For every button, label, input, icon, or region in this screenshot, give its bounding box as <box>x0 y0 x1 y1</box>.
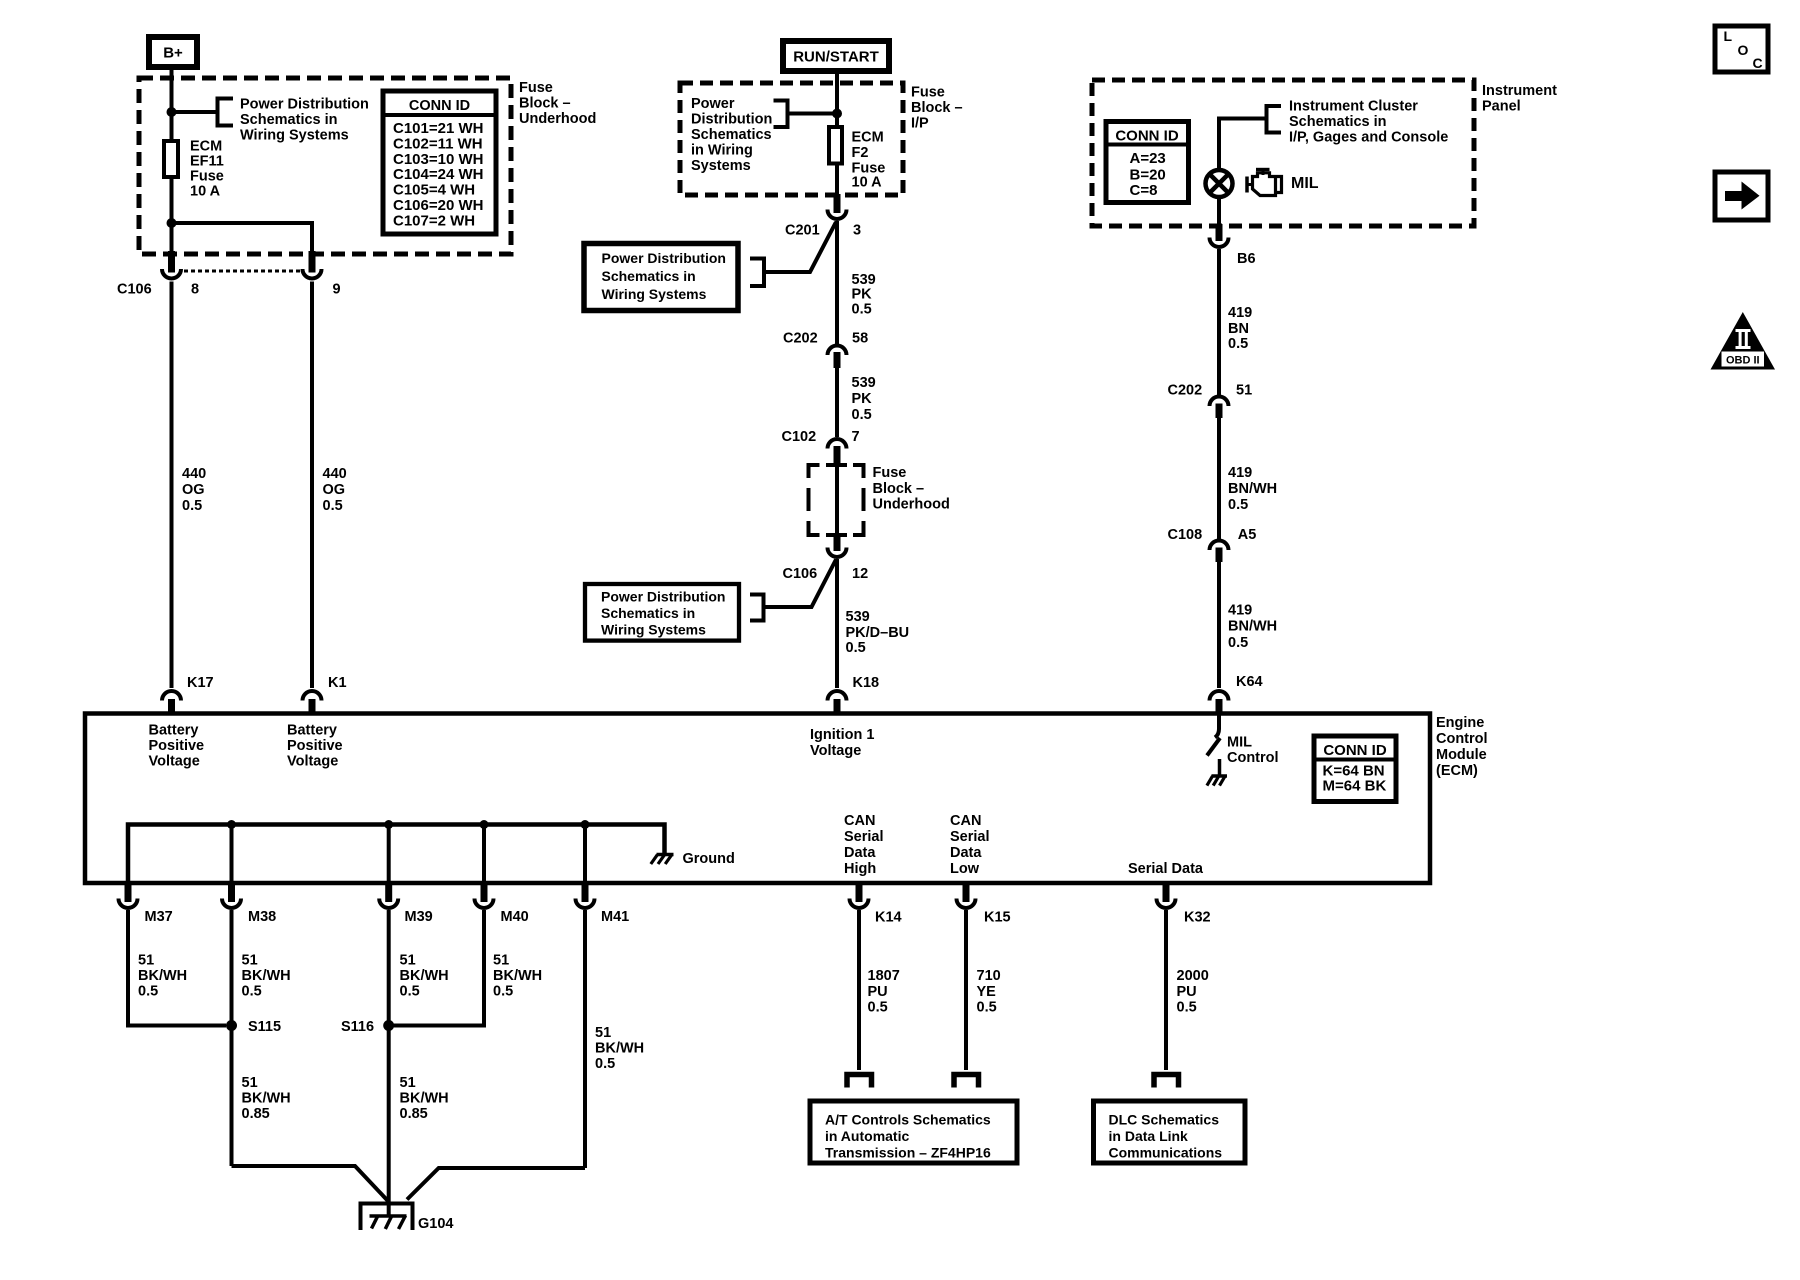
svg-text:0.5: 0.5 <box>977 1000 997 1016</box>
terminal M38 (stub + cup) <box>228 883 235 902</box>
label 440 OG 0.5 (left) <box>182 466 206 514</box>
wire branch to schematics bracket <box>172 110 218 114</box>
svg-text:BK/WH: BK/WH <box>400 968 449 984</box>
terminal K32 (stub + cup) <box>1163 883 1170 902</box>
svg-text:Engine: Engine <box>1436 715 1484 731</box>
svg-text:Schematics: Schematics <box>691 127 772 143</box>
svg-text:710: 710 <box>977 968 1001 984</box>
svg-text:0.5: 0.5 <box>852 302 872 318</box>
node: splice S115 <box>226 1020 237 1031</box>
svg-text:Systems: Systems <box>691 158 751 174</box>
svg-text:Underhood: Underhood <box>873 497 950 513</box>
svg-text:419: 419 <box>1228 305 1252 321</box>
svg-text:I/P, Gages and Console: I/P, Gages and Console <box>1289 130 1448 146</box>
label 539 PK 0.5 <box>852 375 876 423</box>
svg-text:0.5: 0.5 <box>868 1000 888 1016</box>
CONN ID table (underhood) <box>383 91 496 234</box>
B+ power symbol box <box>149 37 197 67</box>
svg-text:0.5: 0.5 <box>1228 336 1248 352</box>
wire lamp to cluster bracket <box>1219 119 1267 171</box>
svg-text:419: 419 <box>1228 465 1252 481</box>
svg-text:RUN/START: RUN/START <box>793 49 879 66</box>
wire 1807 PU (K14) <box>857 910 861 1070</box>
svg-text:PK/D–BU: PK/D–BU <box>846 625 910 641</box>
svg-text:0.5: 0.5 <box>1177 1000 1197 1016</box>
label Fuse Block Underhood <box>519 80 596 127</box>
svg-text:51: 51 <box>1236 383 1252 399</box>
label 51 BK/WH 0.5 (M41) <box>595 1025 644 1072</box>
svg-text:in Automatic: in Automatic <box>825 1128 909 1144</box>
svg-text:A=23: A=23 <box>1130 150 1166 167</box>
wire B+ down to fuse EF11 <box>170 70 174 139</box>
label CAN Serial Data High <box>844 813 884 877</box>
svg-text:0.5: 0.5 <box>138 984 158 1000</box>
svg-text:Battery: Battery <box>149 723 199 739</box>
ground rake (MIL control) <box>1207 776 1227 786</box>
svg-text:PK: PK <box>852 391 873 407</box>
svg-text:M41: M41 <box>601 909 629 925</box>
svg-text:C201: C201 <box>785 223 820 239</box>
node: bus dot M40 <box>480 820 489 829</box>
bracket to Power Distribution Schematics note <box>218 99 234 126</box>
svg-text:Wiring Systems: Wiring Systems <box>240 128 349 144</box>
bracket to Power Distribution note <box>774 101 788 128</box>
svg-text:12: 12 <box>852 566 868 582</box>
svg-text:M=64 BK: M=64 BK <box>1323 778 1387 795</box>
icon: OBD II triangle <box>1711 312 1776 370</box>
label 539 PK 0.5 <box>852 272 876 318</box>
instrument panel dashed box <box>1092 80 1474 226</box>
svg-text:YE: YE <box>977 984 997 1000</box>
svg-text:7: 7 <box>852 429 860 445</box>
svg-text:Fuse: Fuse <box>519 80 553 96</box>
node: bus dot M39 <box>384 820 393 829</box>
svg-text:51: 51 <box>138 953 154 969</box>
label Engine Control Module (ECM) <box>1436 715 1488 779</box>
svg-text:Serial Data: Serial Data <box>1128 861 1204 877</box>
wire diagonal branch to schematics note (lower) <box>764 560 837 608</box>
svg-text:BK/WH: BK/WH <box>400 1091 449 1107</box>
svg-text:C202: C202 <box>783 331 818 347</box>
wire M41 51 BK/WH down <box>583 910 587 1168</box>
svg-text:51: 51 <box>400 1075 416 1091</box>
wire through small fuse block <box>835 464 839 535</box>
note box: DLC Schematics <box>1094 1101 1246 1163</box>
note box: Power Distribution Schematics in Wiring Systems (upper middle) <box>584 244 738 311</box>
svg-text:Schematics in: Schematics in <box>240 112 338 128</box>
label 440 OG 0.5 (right) <box>323 466 347 514</box>
svg-text:M40: M40 <box>501 909 529 925</box>
svg-text:Control: Control <box>1436 731 1488 747</box>
svg-text:58: 58 <box>852 331 868 347</box>
svg-text:K64: K64 <box>1236 674 1263 690</box>
node: splice S116 <box>383 1020 394 1031</box>
svg-text:Distribution: Distribution <box>691 112 772 128</box>
svg-text:OG: OG <box>182 482 205 498</box>
svg-text:Battery: Battery <box>287 723 337 739</box>
wire 539 PK (C201 to C202) <box>835 221 839 344</box>
wire lamp down to B6 <box>1217 197 1221 226</box>
svg-text:C202: C202 <box>1168 383 1203 399</box>
svg-text:(ECM): (ECM) <box>1436 763 1478 779</box>
svg-text:51: 51 <box>242 953 258 969</box>
svg-text:Schematics in: Schematics in <box>601 605 695 621</box>
svg-text:BN/WH: BN/WH <box>1228 619 1277 635</box>
terminal bracket (K14 destination) <box>847 1075 872 1088</box>
svg-text:OG: OG <box>323 482 346 498</box>
connector C106 pin 8 (stub + cup) <box>168 251 175 273</box>
svg-text:2000: 2000 <box>1177 968 1209 984</box>
ground G104 symbol <box>361 1204 413 1231</box>
svg-text:9: 9 <box>333 282 341 298</box>
svg-text:Fuse: Fuse <box>911 85 945 101</box>
wire 539 PK/D-BU (C106 to K18) <box>835 559 839 688</box>
label 51 BK/WH 0.85 (S115) <box>242 1075 291 1122</box>
svg-text:EF11: EF11 <box>190 154 224 170</box>
svg-text:MIL: MIL <box>1291 175 1319 192</box>
label fuse F2 <box>852 130 886 191</box>
note: Instrument Cluster Schematics <box>1289 99 1448 146</box>
svg-text:C106: C106 <box>117 282 152 298</box>
svg-text:CONN ID: CONN ID <box>1115 128 1179 145</box>
MIL control switch wire <box>1215 715 1219 738</box>
svg-text:0.5: 0.5 <box>595 1056 615 1072</box>
svg-text:Schematics in: Schematics in <box>1289 114 1387 130</box>
svg-text:K14: K14 <box>875 910 902 926</box>
svg-text:C106: C106 <box>783 566 818 582</box>
svg-text:PK: PK <box>852 287 873 303</box>
svg-text:0.85: 0.85 <box>242 1106 270 1122</box>
svg-text:CONN ID: CONN ID <box>409 98 470 114</box>
label 539 PK/D-BU 0.5 <box>846 609 910 656</box>
svg-text:K18: K18 <box>853 675 880 691</box>
wire M40 51 BK/WH to S116 <box>394 910 484 1026</box>
svg-text:Fuse: Fuse <box>873 465 907 481</box>
icon: arrow box (right) <box>1715 172 1768 220</box>
label 51 BK/WH 0.5 (M38) <box>242 953 291 1000</box>
wire 440 OG (pin 9 to K1) <box>310 282 314 689</box>
svg-text:Power Distribution: Power Distribution <box>602 250 726 266</box>
wire bus drop M41 <box>583 825 587 882</box>
svg-text:539: 539 <box>846 609 870 625</box>
connector C106 pin 9 (stub + cup) <box>309 251 316 273</box>
wire 419 BN/WH (C202 to C108) <box>1217 418 1221 539</box>
svg-text:51: 51 <box>242 1075 258 1091</box>
svg-text:0.5: 0.5 <box>1228 497 1248 513</box>
svg-text:Underhood: Underhood <box>519 111 596 127</box>
svg-text:Ignition 1: Ignition 1 <box>810 727 874 743</box>
svg-text:C: C <box>1753 55 1763 71</box>
icon: check engine (MIL) <box>1247 170 1282 196</box>
svg-text:CAN: CAN <box>950 813 981 829</box>
label Fuse Block I/P <box>911 85 963 132</box>
svg-text:0.5: 0.5 <box>493 984 513 1000</box>
wire bus drop M38 <box>230 825 234 882</box>
svg-text:C108: C108 <box>1168 527 1203 543</box>
svg-text:Instrument: Instrument <box>1482 83 1557 99</box>
terminal M37 (stub + cup) <box>125 883 132 902</box>
svg-text:Low: Low <box>950 861 980 877</box>
svg-text:Voltage: Voltage <box>149 754 200 770</box>
svg-text:F2: F2 <box>852 145 869 161</box>
label 710 YE 0.5 <box>977 968 1001 1016</box>
svg-text:0.5: 0.5 <box>846 640 866 656</box>
svg-text:Schematics in: Schematics in <box>602 268 696 284</box>
svg-text:Voltage: Voltage <box>810 743 861 759</box>
svg-text:M38: M38 <box>248 909 276 925</box>
svg-text:51: 51 <box>493 953 509 969</box>
svg-text:1807: 1807 <box>868 968 900 984</box>
label 419 BN 0.5 <box>1228 305 1252 352</box>
svg-text:440: 440 <box>323 466 347 482</box>
svg-text:Block –: Block – <box>519 96 571 112</box>
label CAN Serial Data Low <box>950 813 990 877</box>
svg-text:BK/WH: BK/WH <box>242 1091 291 1107</box>
svg-text:CAN: CAN <box>844 813 875 829</box>
wire fuse EF11 down <box>170 179 174 253</box>
svg-text:K15: K15 <box>984 910 1011 926</box>
note: Power Distribution Schematics in Wiring Systems (I/P box) <box>691 96 772 174</box>
connector B6 (stub + cup) <box>1216 224 1223 241</box>
svg-text:B+: B+ <box>163 45 183 62</box>
svg-text:Block –: Block – <box>911 100 963 116</box>
label 51 BK/WH 0.5 (M37) <box>138 953 187 1000</box>
svg-text:0.5: 0.5 <box>400 984 420 1000</box>
label 419 BN/WH 0.5 <box>1228 603 1277 652</box>
svg-text:419: 419 <box>1228 603 1252 619</box>
svg-text:0.5: 0.5 <box>182 498 202 514</box>
label 51 BK/WH 0.5 (M40) <box>493 953 542 1000</box>
svg-text:K1: K1 <box>328 675 347 691</box>
svg-text:K17: K17 <box>187 675 214 691</box>
svg-text:O: O <box>1738 42 1749 58</box>
bracket to Instrument Cluster note <box>1267 106 1282 133</box>
wire to schematics bracket <box>788 112 838 116</box>
svg-text:Data: Data <box>950 845 982 861</box>
svg-text:51: 51 <box>400 953 416 969</box>
label 1807 PU 0.5 <box>868 968 900 1016</box>
svg-text:440: 440 <box>182 466 206 482</box>
svg-text:ECM: ECM <box>852 130 884 146</box>
svg-text:S115: S115 <box>248 1019 281 1035</box>
note: Power Distribution Schematics in Wiring Systems (top left) <box>240 97 369 144</box>
fuse ECM F2 10A <box>829 127 842 164</box>
svg-text:0.85: 0.85 <box>400 1106 428 1122</box>
CONN ID table (instrument panel) <box>1106 122 1189 203</box>
svg-text:BK/WH: BK/WH <box>138 968 187 984</box>
svg-text:Control: Control <box>1227 750 1279 766</box>
label Fuse Block Underhood (middle) <box>873 465 950 513</box>
wire M39 51 BK/WH through S116 to G104 <box>387 910 391 1216</box>
label Ignition 1 Voltage <box>810 727 874 759</box>
label Instrument Panel <box>1482 83 1557 115</box>
ground rake (ECM internal) <box>651 855 674 865</box>
svg-text:in Wiring: in Wiring <box>691 143 753 159</box>
svg-text:G104: G104 <box>418 1216 453 1232</box>
wire diagonal branch to schematics note <box>764 222 836 272</box>
fuse block I/P dashed box <box>680 83 903 195</box>
label fuse EF11 <box>190 139 224 200</box>
svg-text:3: 3 <box>853 223 861 239</box>
wire S115 branch to G104 <box>232 1166 389 1201</box>
svg-text:0.5: 0.5 <box>852 407 872 423</box>
note box: Power Distribution Schematics in Wiring Systems (lower middle) <box>585 584 739 641</box>
svg-text:CONN ID: CONN ID <box>1323 742 1387 759</box>
wire 440 OG (pin 8 to K17) <box>170 282 174 689</box>
svg-text:Wiring Systems: Wiring Systems <box>601 622 706 638</box>
svg-text:0.5: 0.5 <box>242 984 262 1000</box>
svg-text:BK/WH: BK/WH <box>242 968 291 984</box>
svg-text:BK/WH: BK/WH <box>493 968 542 984</box>
svg-text:Serial: Serial <box>950 829 990 845</box>
node: junction dot at F2 feed <box>832 109 842 119</box>
svg-text:S116: S116 <box>341 1019 374 1035</box>
svg-text:B=20: B=20 <box>1130 167 1166 184</box>
bracket (middle left note) <box>750 259 764 287</box>
fuse block underhood small dashed box <box>809 465 864 535</box>
connector C201 pin 3 (stub + cup) <box>834 194 841 213</box>
svg-text:Panel: Panel <box>1482 99 1521 115</box>
svg-text:High: High <box>844 861 876 877</box>
svg-text:C102: C102 <box>782 429 817 445</box>
terminal M39 (stub + cup) <box>385 883 392 902</box>
svg-text:Voltage: Voltage <box>287 754 338 770</box>
label 2000 PU 0.5 <box>1177 968 1209 1016</box>
svg-text:I/P: I/P <box>911 116 929 132</box>
label 51 BK/WH 0.5 (M39) <box>400 953 449 1000</box>
svg-text:Power Distribution: Power Distribution <box>240 97 369 113</box>
svg-text:Power Distribution: Power Distribution <box>601 589 725 605</box>
CONN ID table (ECM) <box>1314 736 1396 802</box>
svg-text:Positive: Positive <box>287 738 343 754</box>
svg-text:Serial: Serial <box>844 829 884 845</box>
label Battery Positive Voltage (K17) <box>149 723 205 770</box>
wire 419 BN (B6 to C202) <box>1217 249 1221 395</box>
svg-text:51: 51 <box>595 1025 611 1041</box>
svg-text:BK/WH: BK/WH <box>595 1041 644 1057</box>
label Battery Positive Voltage (K1) <box>287 723 343 770</box>
svg-text:Fuse: Fuse <box>190 169 224 185</box>
svg-text:10 A: 10 A <box>852 175 883 191</box>
svg-text:0.5: 0.5 <box>323 498 343 514</box>
icon: LOC box (top right) <box>1715 26 1768 72</box>
label 419 BN/WH 0.5 <box>1228 465 1277 513</box>
node: bus dot M41 <box>581 820 590 829</box>
svg-text:Transmission – ZF4HP16: Transmission – ZF4HP16 <box>825 1145 991 1161</box>
note box: A/T Controls Schematics <box>810 1101 1017 1163</box>
svg-text:BN/WH: BN/WH <box>1228 481 1277 497</box>
ground bus inside ECM <box>128 825 665 882</box>
svg-text:DLC Schematics: DLC Schematics <box>1109 1112 1220 1128</box>
svg-text:Positive: Positive <box>149 738 205 754</box>
wire M37 51 BK/WH to S115 <box>128 910 226 1026</box>
svg-text:Communications: Communications <box>1109 1145 1223 1161</box>
wire 419 BN/WH (C108 to K64) <box>1217 562 1221 688</box>
wire F2 down to C201 <box>835 165 839 196</box>
wire M38 51 BK/WH through S115 down <box>230 910 234 1166</box>
ECM module box <box>85 714 1430 884</box>
connector C106 pin 12 (stub + cup) <box>834 533 841 551</box>
terminal M40 (stub + cup) <box>481 883 488 902</box>
label MIL Control <box>1227 735 1279 767</box>
bracket (lower left note) <box>750 595 764 621</box>
wire bus drop M40 <box>482 825 486 882</box>
terminal bracket (K15 destination) <box>954 1075 979 1088</box>
label 51 BK/WH 0.85 (S116) <box>400 1075 449 1122</box>
svg-text:0.5: 0.5 <box>1228 635 1248 651</box>
wire branch to C106 pin 9 <box>172 223 313 253</box>
svg-text:OBD II: OBD II <box>1726 355 1760 367</box>
fuse ECM EF11 10A <box>164 141 178 177</box>
svg-text:MIL: MIL <box>1227 735 1252 751</box>
svg-text:Wiring Systems: Wiring Systems <box>602 286 707 302</box>
svg-text:Power: Power <box>691 96 735 112</box>
wire 2000 PU (K32) <box>1164 910 1168 1070</box>
svg-text:PU: PU <box>868 984 888 1000</box>
svg-text:B6: B6 <box>1237 251 1256 267</box>
RUN/START power symbol box <box>783 41 889 71</box>
svg-text:L: L <box>1724 28 1733 44</box>
svg-text:C=8: C=8 <box>1130 182 1158 199</box>
svg-text:in Data Link: in Data Link <box>1109 1128 1189 1144</box>
svg-text:A5: A5 <box>1238 527 1257 543</box>
dotted tie line between C106 pins <box>184 270 300 273</box>
wire 710 YE (K15) <box>964 910 968 1070</box>
svg-text:M37: M37 <box>145 909 173 925</box>
switch ground stub <box>1218 759 1222 775</box>
lamp MIL indicator <box>1206 170 1233 197</box>
wire RUN/START down <box>835 74 839 125</box>
svg-text:Block –: Block – <box>873 481 925 497</box>
svg-text:8: 8 <box>191 282 199 298</box>
terminal bracket (K32 destination) <box>1154 1075 1179 1088</box>
svg-text:Module: Module <box>1436 747 1487 763</box>
svg-text:PU: PU <box>1177 984 1197 1000</box>
fuse block underhood dashed box <box>139 78 511 254</box>
svg-text:Ground: Ground <box>683 851 735 867</box>
node: junction dot to pin 9 branch <box>167 218 177 228</box>
terminal M41 (stub + cup) <box>582 883 589 902</box>
svg-text:10 A: 10 A <box>190 184 221 200</box>
node: bus dot M38 <box>227 820 236 829</box>
wire M41 branch to G104 <box>407 1168 585 1200</box>
svg-text:ECM: ECM <box>190 139 222 155</box>
wire 539 PK (C202 to C102) <box>835 368 839 437</box>
svg-text:Data: Data <box>844 845 876 861</box>
svg-text:Instrument Cluster: Instrument Cluster <box>1289 99 1418 115</box>
svg-text:M39: M39 <box>405 909 433 925</box>
svg-text:K32: K32 <box>1184 910 1211 926</box>
terminal K14 (stub + cup) <box>856 883 863 902</box>
svg-text:BN: BN <box>1228 321 1249 337</box>
node: junction dot on B+ feed <box>167 107 177 117</box>
switch blade <box>1207 738 1220 756</box>
svg-text:539: 539 <box>852 375 876 391</box>
svg-text:A/T Controls Schematics: A/T Controls Schematics <box>825 1112 991 1128</box>
terminal K15 (stub + cup) <box>963 883 970 902</box>
svg-text:C107=2 WH: C107=2 WH <box>393 212 475 229</box>
wire bus drop M39 <box>387 825 391 882</box>
